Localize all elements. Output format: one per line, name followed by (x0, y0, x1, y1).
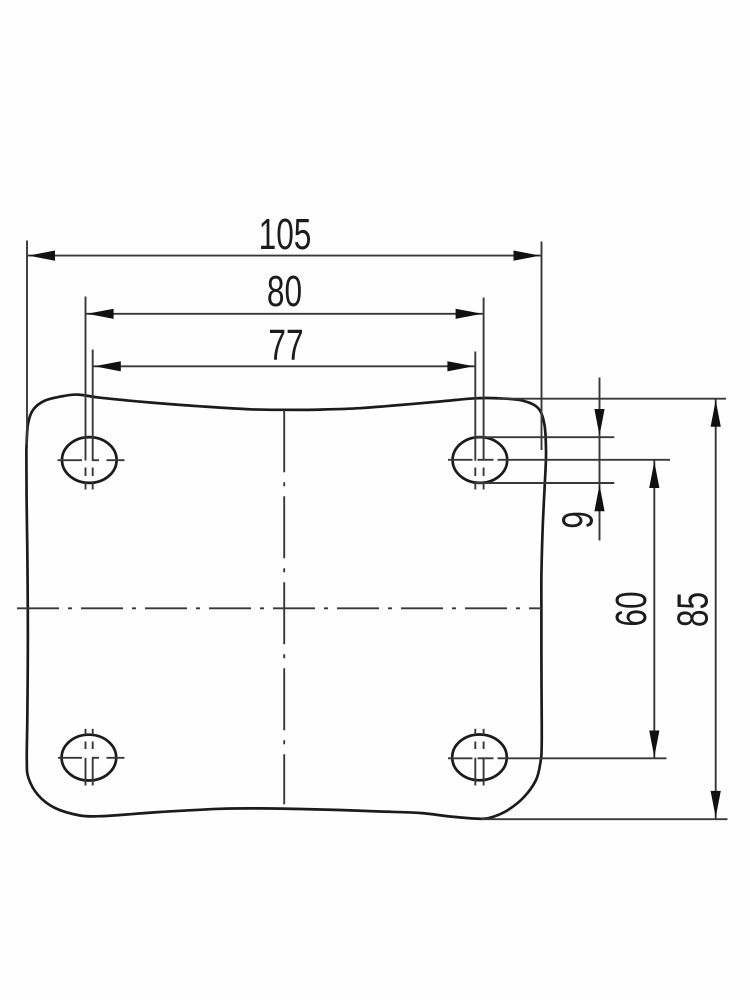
svg-text:77: 77 (268, 321, 303, 370)
svg-text:60: 60 (607, 591, 656, 626)
svg-text:105: 105 (259, 210, 312, 259)
svg-text:85: 85 (668, 592, 717, 627)
svg-text:9: 9 (553, 511, 602, 529)
svg-text:80: 80 (267, 267, 302, 316)
